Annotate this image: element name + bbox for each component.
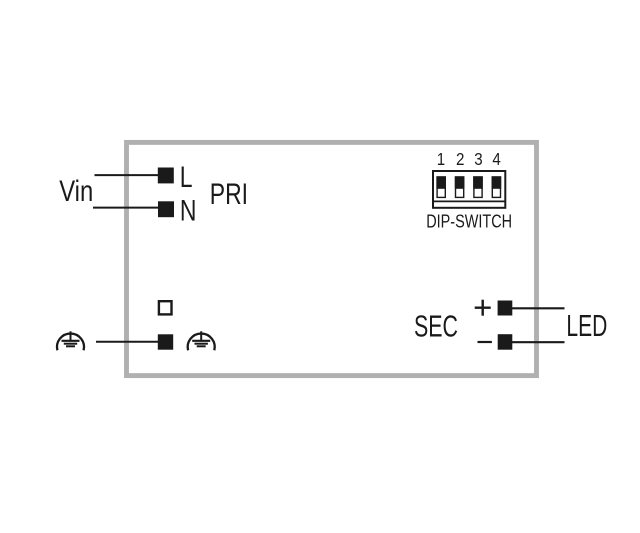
svg-text:N: N bbox=[180, 194, 197, 228]
svg-text:1: 1 bbox=[437, 150, 445, 169]
dip switch slider 1 bbox=[436, 176, 446, 197]
terminal minus bbox=[498, 334, 513, 350]
wire LED minus bbox=[512, 341, 565, 343]
svg-text:Vin: Vin bbox=[59, 175, 93, 208]
dip switch body bbox=[433, 171, 505, 208]
svg-text:4: 4 bbox=[492, 150, 500, 169]
terminal N bbox=[158, 201, 174, 217]
minus sign bbox=[478, 341, 492, 343]
svg-text:DIP-SWITCH: DIP-SWITCH bbox=[426, 212, 512, 232]
terminal L bbox=[158, 168, 174, 184]
svg-text:L: L bbox=[180, 160, 193, 194]
ground symbol outside bbox=[57, 331, 84, 350]
wire N input bbox=[93, 207, 159, 209]
wire protective earth bbox=[96, 341, 159, 343]
dip switch slider 3 bbox=[473, 176, 483, 197]
wire L input bbox=[95, 174, 160, 176]
svg-text:3: 3 bbox=[474, 150, 482, 169]
plus sign bbox=[475, 300, 491, 316]
svg-text:SEC: SEC bbox=[414, 309, 458, 344]
wire LED plus bbox=[512, 307, 565, 309]
dip switch slider 2 bbox=[455, 176, 465, 197]
dip switch slider 4 bbox=[492, 176, 502, 197]
svg-text:2: 2 bbox=[456, 150, 464, 169]
ground symbol inside bbox=[188, 331, 215, 350]
driver enclosure box bbox=[127, 142, 537, 375]
svg-text:PRI: PRI bbox=[210, 177, 248, 211]
dip switch position numbers 1 2 3 4 bbox=[437, 150, 501, 169]
mounting hole (white square) bbox=[159, 301, 172, 314]
terminal protective earth bbox=[158, 334, 173, 349]
svg-text:LED: LED bbox=[566, 308, 607, 343]
terminal plus bbox=[498, 301, 513, 316]
